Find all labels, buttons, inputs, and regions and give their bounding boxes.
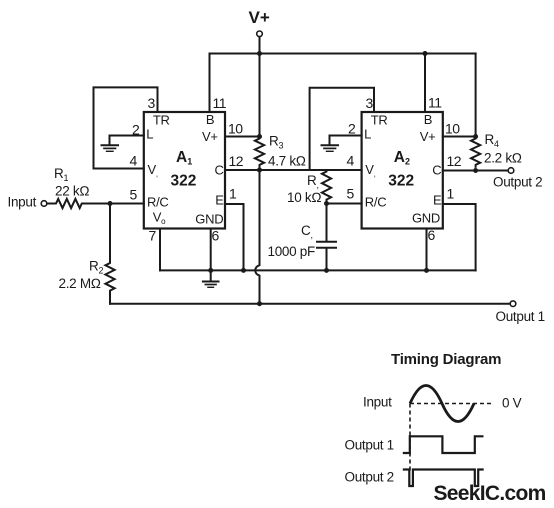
wire A1 pin 11	[209, 54, 211, 113]
wire A1 pin 10 to V+ line	[225, 136, 260, 138]
svg-text:Timing Diagram: Timing Diagram	[391, 351, 501, 368]
wire A2 pin 1 E to ground bus	[443, 204, 476, 270]
svg-text:R/C: R/C	[147, 195, 169, 210]
svg-text:3: 3	[148, 95, 156, 111]
svg-text:4.7 kΩ: 4.7 kΩ	[268, 154, 306, 169]
svg-text:1: 1	[447, 186, 455, 202]
wire A1 pin 3 trigger loop	[94, 87, 158, 168]
V+ supply terminal	[249, 8, 270, 137]
wire A1 pin 7 down	[159, 229, 161, 271]
svg-text:V+: V+	[202, 129, 218, 144]
resistor R4	[471, 137, 480, 167]
svg-text:12: 12	[229, 153, 244, 169]
wire A2 pin 10	[443, 136, 476, 138]
svg-text:4: 4	[347, 153, 355, 169]
wire A2 pin 12 to output 2	[443, 170, 508, 172]
svg-text:Output 2: Output 2	[345, 470, 394, 485]
svg-text:12: 12	[447, 153, 462, 169]
A1 pin numbers	[130, 95, 244, 244]
svg-text:B: B	[206, 112, 214, 127]
IC op-amp/timer U1 A1 322 box	[144, 112, 225, 229]
svg-text:22 kΩ: 22 kΩ	[55, 184, 89, 199]
IC op-amp/timer U2 A2 322 box	[362, 112, 443, 229]
dashed zero line	[410, 403, 494, 405]
svg-text:V+: V+	[249, 8, 270, 27]
wire A1 pin 6	[210, 229, 212, 271]
svg-text:1: 1	[229, 186, 237, 202]
svg-text:V+: V+	[420, 129, 436, 144]
wire input to A1 pin 5	[110, 203, 144, 205]
node V+ rail junction	[257, 51, 262, 56]
svg-text:2.2 MΩ: 2.2 MΩ	[59, 276, 101, 291]
A2 pin numbers	[347, 95, 462, 244]
dashed vertical line	[409, 404, 411, 473]
svg-text:11: 11	[428, 95, 442, 111]
wire right rail down to A2 pin 10	[475, 54, 477, 137]
svg-text:5: 5	[130, 187, 138, 203]
svg-text:0 V: 0 V	[502, 396, 522, 411]
svg-text:10: 10	[228, 121, 243, 137]
wire top V+ rail	[210, 53, 476, 55]
svg-text:TR: TR	[153, 113, 170, 128]
svg-text:C: C	[215, 162, 224, 177]
svg-text:GND: GND	[195, 211, 223, 226]
svg-text:5: 5	[347, 186, 355, 202]
resistor R2	[105, 204, 114, 304]
resistor R1	[47, 199, 110, 208]
svg-text:Output 2: Output 2	[493, 175, 542, 190]
svg-text:11: 11	[213, 95, 227, 111]
wire output 1	[110, 303, 510, 305]
wire A1 pin 1 E down to ground bus	[225, 204, 244, 270]
svg-text:C: C	[432, 162, 441, 177]
ground A2 pin2	[322, 145, 339, 151]
sine wave input	[410, 386, 474, 422]
svg-text:10 kΩ: 10 kΩ	[287, 190, 321, 205]
resistor R3	[255, 137, 264, 167]
ground symbol below A1 pin 6	[203, 270, 219, 287]
svg-text:322: 322	[388, 173, 414, 190]
wire A2 pin 11	[424, 54, 426, 113]
wire A2 pin 6	[426, 229, 428, 271]
svg-text:SeekIC.com: SeekIC.com	[434, 482, 546, 505]
Output 1 terminal	[510, 301, 516, 307]
svg-text:Input: Input	[8, 195, 37, 210]
svg-text:6: 6	[428, 227, 436, 243]
wire A2 pin 5	[327, 203, 362, 205]
svg-text:3: 3	[366, 95, 374, 111]
svg-text:TR: TR	[371, 113, 388, 128]
svg-text:L: L	[146, 127, 153, 142]
Output 2 terminal	[508, 168, 514, 174]
wire A2 pin 3 trigger loop	[310, 88, 374, 170]
wire collector down to output 1 with hop over ground bus	[255, 170, 259, 304]
svg-text:1000 pF: 1000 pF	[268, 244, 315, 259]
node input/R2 junction	[108, 201, 113, 206]
svg-text:E: E	[215, 193, 224, 208]
svg-text:2: 2	[348, 121, 356, 137]
svg-text:10: 10	[445, 121, 460, 137]
wire A1 pin 12 C bus to A2 pin 4	[225, 169, 362, 171]
svg-text:L: L	[364, 127, 371, 142]
svg-text:Output 1: Output 1	[345, 438, 394, 453]
svg-text:4: 4	[130, 153, 138, 169]
svg-text:322: 322	[171, 173, 197, 190]
svg-text:2.2 kΩ: 2.2 kΩ	[484, 151, 522, 166]
svg-text:R/C: R/C	[365, 195, 387, 210]
wire A2 pin 2 L with ground	[330, 136, 362, 145]
svg-text:B: B	[424, 112, 432, 127]
ground A1 pin2	[102, 145, 119, 151]
svg-text:Input: Input	[363, 395, 392, 410]
svg-text:7: 7	[149, 228, 157, 244]
resistor Rt between A2 pin4 line and pin 5	[322, 170, 331, 201]
svg-text:6: 6	[212, 228, 220, 244]
capacitor Ct	[268, 204, 337, 273]
wire A1 pin 2 L	[110, 136, 144, 145]
svg-text:E: E	[433, 193, 442, 208]
svg-text:Output 1: Output 1	[496, 309, 545, 324]
ground bus wire	[160, 269, 476, 271]
svg-text:GND: GND	[412, 211, 440, 226]
